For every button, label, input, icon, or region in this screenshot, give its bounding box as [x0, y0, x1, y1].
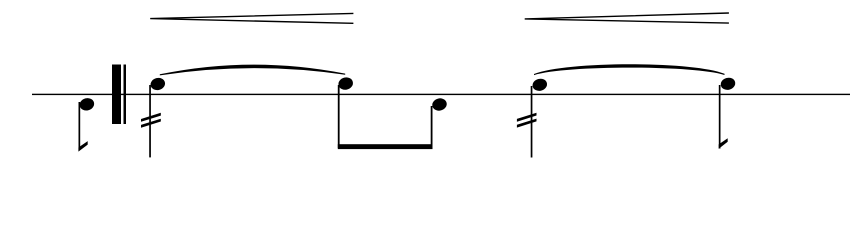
note 1 notehead — [78, 97, 95, 112]
note 1 eighth flag — [78, 141, 87, 152]
note 5 tremolo slash lower — [517, 119, 537, 128]
note 3 notehead — [337, 76, 354, 91]
note 4 notehead — [431, 97, 448, 112]
note 2 tremolo slash lower — [141, 119, 161, 128]
note 5 stem — [531, 86, 533, 158]
slur 1 — [160, 65, 345, 76]
crescendo hairpin 2 — [525, 13, 729, 23]
crescendo hairpin 1 — [150, 13, 353, 23]
note 3 stem — [338, 85, 340, 148]
note 2 stem — [149, 85, 151, 157]
note 6 notehead — [719, 76, 736, 91]
note 6 stem — [719, 85, 721, 149]
double barline thin bar — [124, 65, 127, 125]
note 5 notehead — [531, 77, 548, 92]
note 5 tremolo slash upper — [517, 113, 537, 122]
slur 2 — [534, 64, 725, 75]
staff line — [32, 94, 850, 95]
note 2 notehead — [149, 76, 166, 91]
note 2 tremolo slash upper — [141, 113, 161, 122]
note 1 stem — [79, 102, 81, 149]
beam — [338, 144, 433, 149]
double barline thick bar — [112, 65, 121, 125]
note 6 eighth flag — [719, 138, 728, 148]
note 4 stem — [431, 106, 433, 148]
